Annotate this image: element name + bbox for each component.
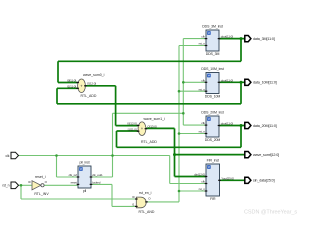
svg-text:I0[11:0]: I0[11:0] [67, 79, 76, 83]
svg-text:FIR_inst: FIR_inst [207, 158, 219, 162]
svg-text:CSDN @ThreeYear_s: CSDN @ThreeYear_s [244, 210, 297, 216]
svg-text:din[12:0]: din[12:0] [194, 173, 205, 177]
svg-text:Yout[25:0]: Yout[25:0] [221, 176, 234, 180]
svg-text:rst_n: rst_n [199, 42, 206, 46]
svg-text:DDS_10M: DDS_10M [205, 95, 221, 99]
svg-text:clk: clk [201, 180, 205, 184]
svg-text:DDS_3M: DDS_3M [206, 52, 220, 56]
svg-text:DDS_10M_inst: DDS_10M_inst [201, 67, 223, 71]
svg-text:I0: I0 [28, 180, 31, 184]
svg-text:pll: pll [83, 189, 87, 193]
svg-text:wave_sum0_i: wave_sum0_i [83, 73, 105, 77]
svg-text:clk_ref: clk_ref [69, 173, 77, 177]
svg-text:O: O [45, 180, 48, 184]
svg-text:RTL_INV: RTL_INV [34, 192, 49, 196]
svg-text:pll_inst: pll_inst [79, 160, 89, 164]
svg-text:dout[11:0]: dout[11:0] [221, 35, 233, 39]
svg-text:RTL_AND: RTL_AND [139, 210, 155, 214]
svg-text:I1[11:0]: I1[11:0] [67, 84, 76, 88]
svg-text:DDS_20M_inst: DDS_20M_inst [201, 110, 223, 114]
svg-text:data_20M[11:0]: data_20M[11:0] [253, 124, 277, 128]
svg-text:DDS_3M_inst: DDS_3M_inst [202, 24, 223, 28]
svg-text:wave_sum1_i: wave_sum1_i [144, 117, 166, 121]
svg-text:data_10M[11:0]: data_10M[11:0] [253, 81, 277, 85]
svg-text:RTL_ADD: RTL_ADD [141, 140, 157, 144]
svg-text:locked: locked [92, 180, 101, 184]
svg-text:dout[11:0]: dout[11:0] [221, 122, 233, 126]
svg-text:clk: clk [201, 35, 205, 39]
svg-text:clk: clk [201, 121, 205, 125]
svg-text:O[12:0]: O[12:0] [87, 82, 96, 86]
svg-text:RTL_ADD: RTL_ADD [81, 94, 97, 98]
svg-text:rst_en_i: rst_en_i [139, 191, 152, 195]
svg-text:clk: clk [201, 78, 205, 82]
svg-text:clk: clk [6, 154, 10, 158]
svg-text:I0[12:0]: I0[12:0] [127, 122, 136, 126]
svg-text:clk_out1: clk_out1 [92, 173, 103, 177]
svg-text:DDS_20M: DDS_20M [205, 138, 221, 142]
svg-text:reset: reset [71, 180, 77, 184]
svg-text:FIR: FIR [210, 197, 216, 201]
svg-text:data_3M[11:0]: data_3M[11:0] [253, 37, 275, 41]
svg-text:sin_data[25:0]: sin_data[25:0] [253, 179, 275, 183]
svg-text:rst_n: rst_n [199, 130, 206, 134]
svg-text:wave_sumf[12:0]: wave_sumf[12:0] [253, 153, 279, 157]
svg-text:rst_n: rst_n [199, 87, 206, 91]
svg-text:I1[11:0]: I1[11:0] [128, 127, 137, 131]
svg-text:rst_n: rst_n [2, 184, 9, 188]
svg-text:O: O [148, 197, 151, 201]
svg-text:reset_i: reset_i [35, 175, 46, 179]
svg-text:dout[11:0]: dout[11:0] [221, 78, 233, 82]
svg-text:rst_n: rst_n [199, 187, 206, 191]
svg-text:O[13:0]: O[13:0] [147, 125, 156, 129]
